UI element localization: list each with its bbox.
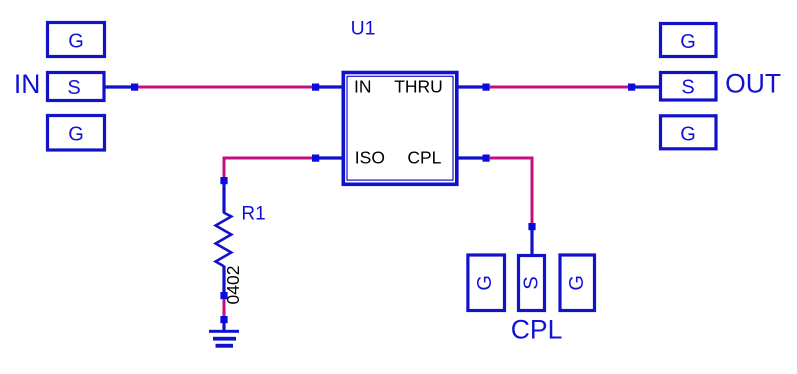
svg-text:IN: IN: [14, 69, 41, 99]
svg-text:G: G: [474, 275, 496, 291]
wire THRU net (magenta): [489, 86, 629, 89]
svg-text:THRU: THRU: [394, 76, 443, 96]
svg-text:S: S: [681, 77, 694, 99]
svg-text:S: S: [67, 77, 80, 99]
svg-text:R1: R1: [241, 204, 265, 225]
port G (OUT ground top): [661, 24, 717, 57]
junction at U1 ISO pin: [312, 155, 319, 162]
junction at U1 CPL pin: [483, 155, 490, 162]
ground: [209, 323, 239, 348]
pin stub U1 IN: [319, 85, 342, 88]
wire ISO net vertical (magenta): [223, 157, 226, 178]
wire (blue) into OUT S port: [635, 85, 660, 88]
svg-text:CPL: CPL: [511, 314, 563, 344]
pin stub U1 ISO: [319, 156, 342, 159]
svg-text:OUT: OUT: [725, 68, 781, 98]
junction at U1 IN pin: [312, 84, 319, 91]
svg-text:G: G: [68, 31, 84, 53]
wire (blue) into CPL S port: [530, 230, 533, 254]
port S (OUT signal): [661, 73, 717, 101]
wire CPL net horizontal (magenta): [489, 157, 533, 160]
junction near OUT S port: [628, 84, 635, 91]
svg-text:IN: IN: [354, 76, 372, 96]
svg-text:G: G: [680, 31, 696, 53]
coupler U1 body: [343, 73, 457, 185]
pin stub U1 THRU: [459, 85, 484, 88]
wire R1-to-ground (magenta): [223, 299, 226, 317]
wire IN net (magenta): [138, 86, 313, 89]
port G (CPL ground left): [468, 255, 505, 311]
svg-text:G: G: [68, 124, 84, 146]
svg-text:U1: U1: [351, 17, 376, 39]
port G (IN ground top): [48, 23, 105, 57]
svg-text:G: G: [566, 275, 588, 291]
port G (OUT ground bottom): [661, 116, 717, 149]
junction at R1 top: [220, 177, 227, 184]
junction on IN wire near S port: [131, 84, 138, 91]
port G (IN ground bottom): [48, 116, 105, 151]
wire CPL net vertical (magenta): [531, 157, 534, 224]
port G (CPL ground right): [560, 255, 595, 311]
wire ISO net horizontal (magenta): [223, 157, 312, 160]
svg-text:ISO: ISO: [355, 148, 385, 168]
pin stub U1 CPL: [459, 156, 484, 159]
port S (CPL signal): [519, 256, 545, 311]
resistor R1: [216, 184, 232, 294]
junction at ground: [220, 316, 227, 323]
junction at R1 bottom: [220, 292, 227, 299]
wire (blue) from IN S port: [106, 85, 133, 88]
svg-text:CPL: CPL: [407, 148, 441, 168]
port S (IN signal): [48, 73, 105, 101]
junction above CPL S port: [528, 223, 535, 230]
junction at U1 THRU pin: [483, 84, 490, 91]
svg-text:G: G: [680, 124, 696, 146]
svg-text:S: S: [521, 276, 543, 289]
